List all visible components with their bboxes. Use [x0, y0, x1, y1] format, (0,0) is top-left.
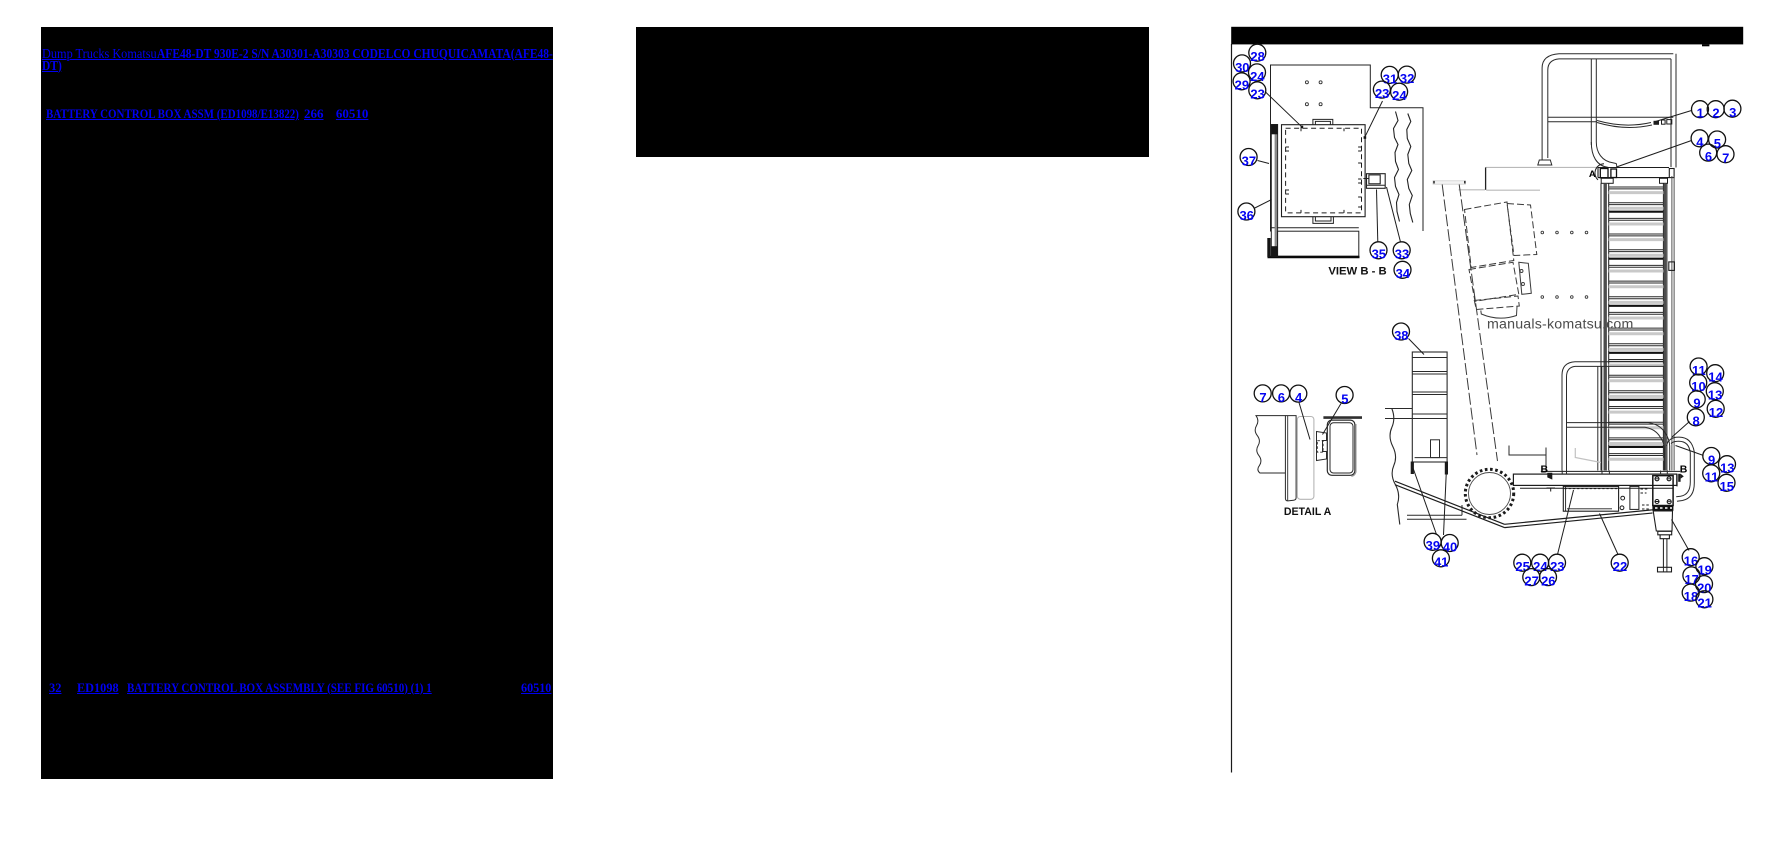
belly diagonal right: [1505, 510, 1653, 528]
svg-text:38: 38: [1394, 328, 1408, 343]
balloon 37: [1240, 149, 1257, 169]
detail A handle bracket: [1327, 420, 1355, 475]
svg-text:manuals-komatsu.com: manuals-komatsu.com: [1487, 317, 1634, 333]
balloon 5: [1336, 387, 1353, 407]
svg-text:15: 15: [1720, 479, 1734, 494]
battery control box outer case: [1282, 125, 1366, 217]
belly diagonal left: [1395, 481, 1505, 527]
top black title bar: [1231, 27, 1743, 45]
balloon 21: [1696, 591, 1713, 611]
balloon 35: [1370, 242, 1387, 262]
svg-text:23: 23: [1250, 87, 1264, 102]
svg-text:40: 40: [1443, 539, 1457, 554]
bumper recess panel: [1563, 486, 1618, 511]
balloon 8: [1687, 409, 1704, 429]
balloon 39: [1424, 533, 1441, 553]
balloon 23: [1249, 82, 1266, 102]
ladder side rails: [1601, 178, 1668, 470]
B flag right: [1678, 474, 1680, 482]
tilted cab box 4: [1519, 262, 1532, 294]
svg-text:VIEW B - B: VIEW B - B: [1328, 266, 1386, 278]
detail circle A: [1595, 164, 1604, 180]
svg-text:25: 25: [1515, 559, 1529, 574]
deck beam end bracket: [1669, 169, 1674, 178]
svg-text:34: 34: [1396, 266, 1411, 281]
leader 40 to stack foot right: [1444, 468, 1447, 536]
top handle tab: [1313, 119, 1333, 124]
balloon 40: [1441, 535, 1458, 555]
svg-text:21: 21: [1697, 596, 1711, 611]
leader 5 to bracket detail: [1323, 404, 1342, 435]
balloon 11: [1703, 465, 1720, 485]
leader 33/34 to bracket: [1387, 187, 1401, 242]
balloon 36: [1238, 203, 1255, 223]
guard posts through beam: [1562, 471, 1667, 475]
balloon 2: [1707, 101, 1724, 121]
break line wavy right: [1407, 114, 1413, 223]
B flag left: [1547, 473, 1552, 480]
svg-text:3: 3: [1729, 105, 1736, 120]
balloon 17: [1683, 567, 1700, 587]
pipe clamp halves at A: [1600, 169, 1608, 178]
middle black panel: [636, 27, 1149, 157]
deck edge line: [1459, 167, 1598, 190]
stack mount feet: [1411, 462, 1414, 475]
right diagram svg placeholder: [1190, 0, 1785, 842]
tilted cab box 2: [1507, 204, 1537, 256]
leader 35 to bracket: [1377, 190, 1378, 243]
balloon 28: [1249, 44, 1266, 64]
balloon 4: [1290, 385, 1307, 405]
balloon 13: [1719, 456, 1736, 476]
balloon 1: [1692, 101, 1709, 121]
recess side bracket: [1630, 486, 1639, 509]
svg-text:12: 12: [1709, 405, 1723, 420]
deck step light line: [1575, 448, 1601, 463]
cable end connectors: [1654, 121, 1660, 125]
balloon 5: [1709, 131, 1726, 151]
leader 16 to jack: [1672, 520, 1690, 551]
bumper upper thin line: [1541, 470, 1680, 472]
balloon 9: [1703, 448, 1720, 468]
svg-text:24: 24: [1392, 88, 1407, 103]
rivet row lower: [1541, 296, 1588, 299]
balloon 25: [1514, 554, 1531, 574]
tilted cab box 1: [1465, 202, 1514, 268]
svg-text:5: 5: [1341, 391, 1348, 406]
balloon 26: [1540, 569, 1557, 589]
leader 36 to channel: [1255, 200, 1272, 209]
balloon 32: [1398, 66, 1415, 86]
left mounting channel: [1271, 125, 1277, 257]
svg-text:29: 29: [1235, 78, 1249, 93]
break line wavy left: [1394, 112, 1400, 222]
balloon 19: [1696, 558, 1713, 578]
svg-text:27: 27: [1524, 574, 1538, 589]
bumper beam: [1513, 474, 1676, 485]
jack strut: [1662, 539, 1664, 568]
svg-text:11: 11: [1705, 470, 1719, 485]
svg-text:7: 7: [1722, 151, 1729, 166]
balloon 41: [1432, 550, 1449, 570]
svg-text:35: 35: [1372, 247, 1386, 262]
balloon 34: [1394, 261, 1411, 281]
panel vent holes: [1305, 81, 1322, 106]
body break edge: [1390, 409, 1400, 525]
balloon 16: [1682, 549, 1699, 569]
upper deck handrail: [1538, 54, 1676, 168]
title bar tail mark: [1702, 44, 1709, 46]
balloon 22: [1611, 554, 1628, 574]
door fastener ticks: [1286, 128, 1362, 213]
svg-text:36: 36: [1239, 208, 1253, 223]
svg-text:26: 26: [1541, 574, 1555, 589]
balloon 12: [1707, 400, 1724, 420]
balloon 20: [1696, 576, 1713, 596]
balloon 24: [1532, 554, 1549, 574]
strut flange: [1433, 181, 1466, 184]
leader 4 to clamp detail: [1299, 403, 1310, 440]
under-stack ledge: [1407, 505, 1467, 519]
leader 37 to channel: [1258, 161, 1270, 164]
ladder rungs: [1609, 187, 1664, 456]
battery box mounting panel outline (VIEW B-B): [1271, 65, 1424, 256]
svg-text:23: 23: [1550, 559, 1564, 574]
cab scoop arc: [1481, 307, 1517, 319]
leader end dot lid: [1301, 126, 1304, 129]
fan motor ring: [1465, 469, 1513, 517]
svg-text:28: 28: [1250, 49, 1264, 64]
leader 1 to cable: [1656, 111, 1692, 122]
tilted cab box 5: [1474, 296, 1519, 310]
deck beam: [1598, 168, 1669, 178]
leader 4 to clamp A: [1617, 141, 1692, 168]
leader end dot corner: [1364, 136, 1367, 139]
balloon 27: [1523, 569, 1540, 589]
balloon 3: [1724, 100, 1741, 120]
bottom handle tab: [1313, 217, 1334, 224]
tilted cab box 3: [1469, 262, 1519, 301]
svg-text:4: 4: [1295, 390, 1303, 405]
detail A break-edge wall: [1255, 416, 1285, 473]
page divider line: [1231, 44, 1233, 773]
svg-text:1: 1: [1697, 106, 1704, 121]
tow bracket plate: [1653, 476, 1673, 506]
detail A top rail: [1323, 416, 1362, 419]
balloon 18: [1682, 584, 1699, 604]
svg-text:22: 22: [1613, 559, 1627, 574]
slanted support strut: [1442, 185, 1497, 462]
balloon 23: [1373, 81, 1390, 101]
balloon 15: [1718, 474, 1735, 494]
balloon 4: [1691, 130, 1708, 150]
sagging cable on mid rail: [1597, 121, 1652, 128]
balloon 6: [1273, 385, 1290, 405]
detail A gasket ghost: [1297, 417, 1314, 500]
lower tray thick base: [1268, 256, 1360, 259]
balloon 29: [1233, 73, 1250, 93]
svg-text:6: 6: [1705, 149, 1712, 164]
balloon 24: [1391, 83, 1408, 103]
svg-text:A: A: [1589, 169, 1596, 180]
leader 23 to box lid: [1265, 92, 1302, 127]
svg-text:2: 2: [1712, 106, 1719, 121]
jack foot: [1658, 567, 1672, 572]
left bumper step: [1509, 446, 1546, 472]
leader 23/24 to box corner: [1365, 101, 1383, 137]
jack rubber pad: [1652, 506, 1673, 511]
ladder right edge clamp: [1669, 262, 1675, 271]
svg-text:41: 41: [1434, 555, 1448, 570]
battery stack side: [1412, 352, 1447, 462]
body side ledge lines: [1385, 409, 1412, 419]
balloon 9: [1688, 391, 1705, 411]
balloon 33: [1393, 242, 1410, 262]
svg-text:37: 37: [1242, 153, 1256, 168]
leader 9 to handle pipe: [1676, 446, 1704, 456]
grab handle loop: [1667, 437, 1695, 501]
svg-text:7: 7: [1259, 390, 1266, 405]
balloon 7: [1254, 385, 1271, 405]
leader 8 to rail bend: [1672, 422, 1690, 438]
detail A clamp piece: [1317, 432, 1327, 461]
leader 39 to stack foot left: [1413, 467, 1437, 535]
left black panel: [41, 27, 553, 779]
ladder rail shading: [1603, 183, 1606, 470]
balloon 7: [1717, 146, 1734, 166]
svg-text:8: 8: [1692, 414, 1699, 429]
balloon 38: [1393, 323, 1410, 343]
balloon 31: [1381, 66, 1398, 86]
balloon 10: [1690, 374, 1707, 394]
svg-text:DETAIL A: DETAIL A: [1284, 506, 1332, 518]
balloon 24: [1249, 64, 1266, 84]
balloon 14: [1707, 365, 1724, 385]
side latch bracket 35/33: [1367, 174, 1386, 189]
svg-text:4: 4: [1696, 135, 1704, 150]
svg-text:13: 13: [1720, 461, 1734, 476]
leader 38 to battery stack: [1409, 339, 1425, 355]
parts table row: [0, 0, 1, 1]
leader 22 to bumper recess: [1600, 514, 1619, 555]
leader 23 to access panel: [1558, 490, 1574, 555]
stack inner latch: [1431, 440, 1440, 458]
title link line: [0, 0, 1, 1]
svg-text:33: 33: [1395, 247, 1409, 262]
svg-text:B: B: [1680, 464, 1688, 476]
balloon 23: [1549, 554, 1566, 574]
balloon 11: [1690, 358, 1707, 378]
svg-text:6: 6: [1278, 390, 1285, 405]
breadcrumb link line 1: [0, 0, 1, 1]
balloon 30: [1234, 55, 1251, 75]
balloon 6: [1700, 144, 1717, 164]
lower guard handrail: [1562, 362, 1670, 471]
detail A mount plate: [1285, 416, 1296, 501]
svg-text:23: 23: [1375, 86, 1389, 101]
balloon 13: [1706, 383, 1723, 403]
battery control box dashed door seam: [1286, 128, 1362, 213]
rivet row upper: [1541, 231, 1588, 234]
jack body: [1653, 511, 1672, 539]
